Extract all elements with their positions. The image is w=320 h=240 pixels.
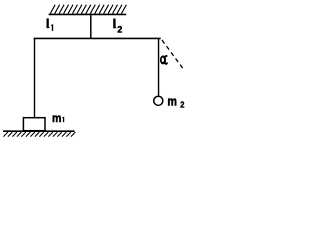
label m2 subscript 2 xyxy=(180,100,185,109)
dashed line (angle reference) xyxy=(162,40,183,69)
label l2 stem xyxy=(113,19,116,29)
label alpha xyxy=(160,55,167,64)
svg-text:2: 2 xyxy=(180,100,185,109)
bar (horizontal beam) xyxy=(34,37,161,39)
block m1 xyxy=(23,118,45,131)
svg-text:m: m xyxy=(52,113,61,126)
mass m2 (circle) xyxy=(154,96,163,105)
label m1 subscript 1 xyxy=(62,117,64,123)
ground hatching xyxy=(3,132,75,137)
label l2 subscript 2 xyxy=(117,24,122,34)
label m1 xyxy=(52,113,61,126)
svg-text:m: m xyxy=(167,94,177,109)
right string to m2 xyxy=(158,38,160,95)
label l1 stem xyxy=(47,18,50,28)
ceiling hatching xyxy=(50,5,126,14)
svg-text:2: 2 xyxy=(117,24,122,34)
label m2 xyxy=(167,94,177,109)
label l1 subscript 1 xyxy=(51,24,53,31)
left string to m1 xyxy=(34,38,36,117)
ground line xyxy=(3,130,75,132)
support rod xyxy=(90,14,92,38)
ceiling line xyxy=(49,13,127,15)
